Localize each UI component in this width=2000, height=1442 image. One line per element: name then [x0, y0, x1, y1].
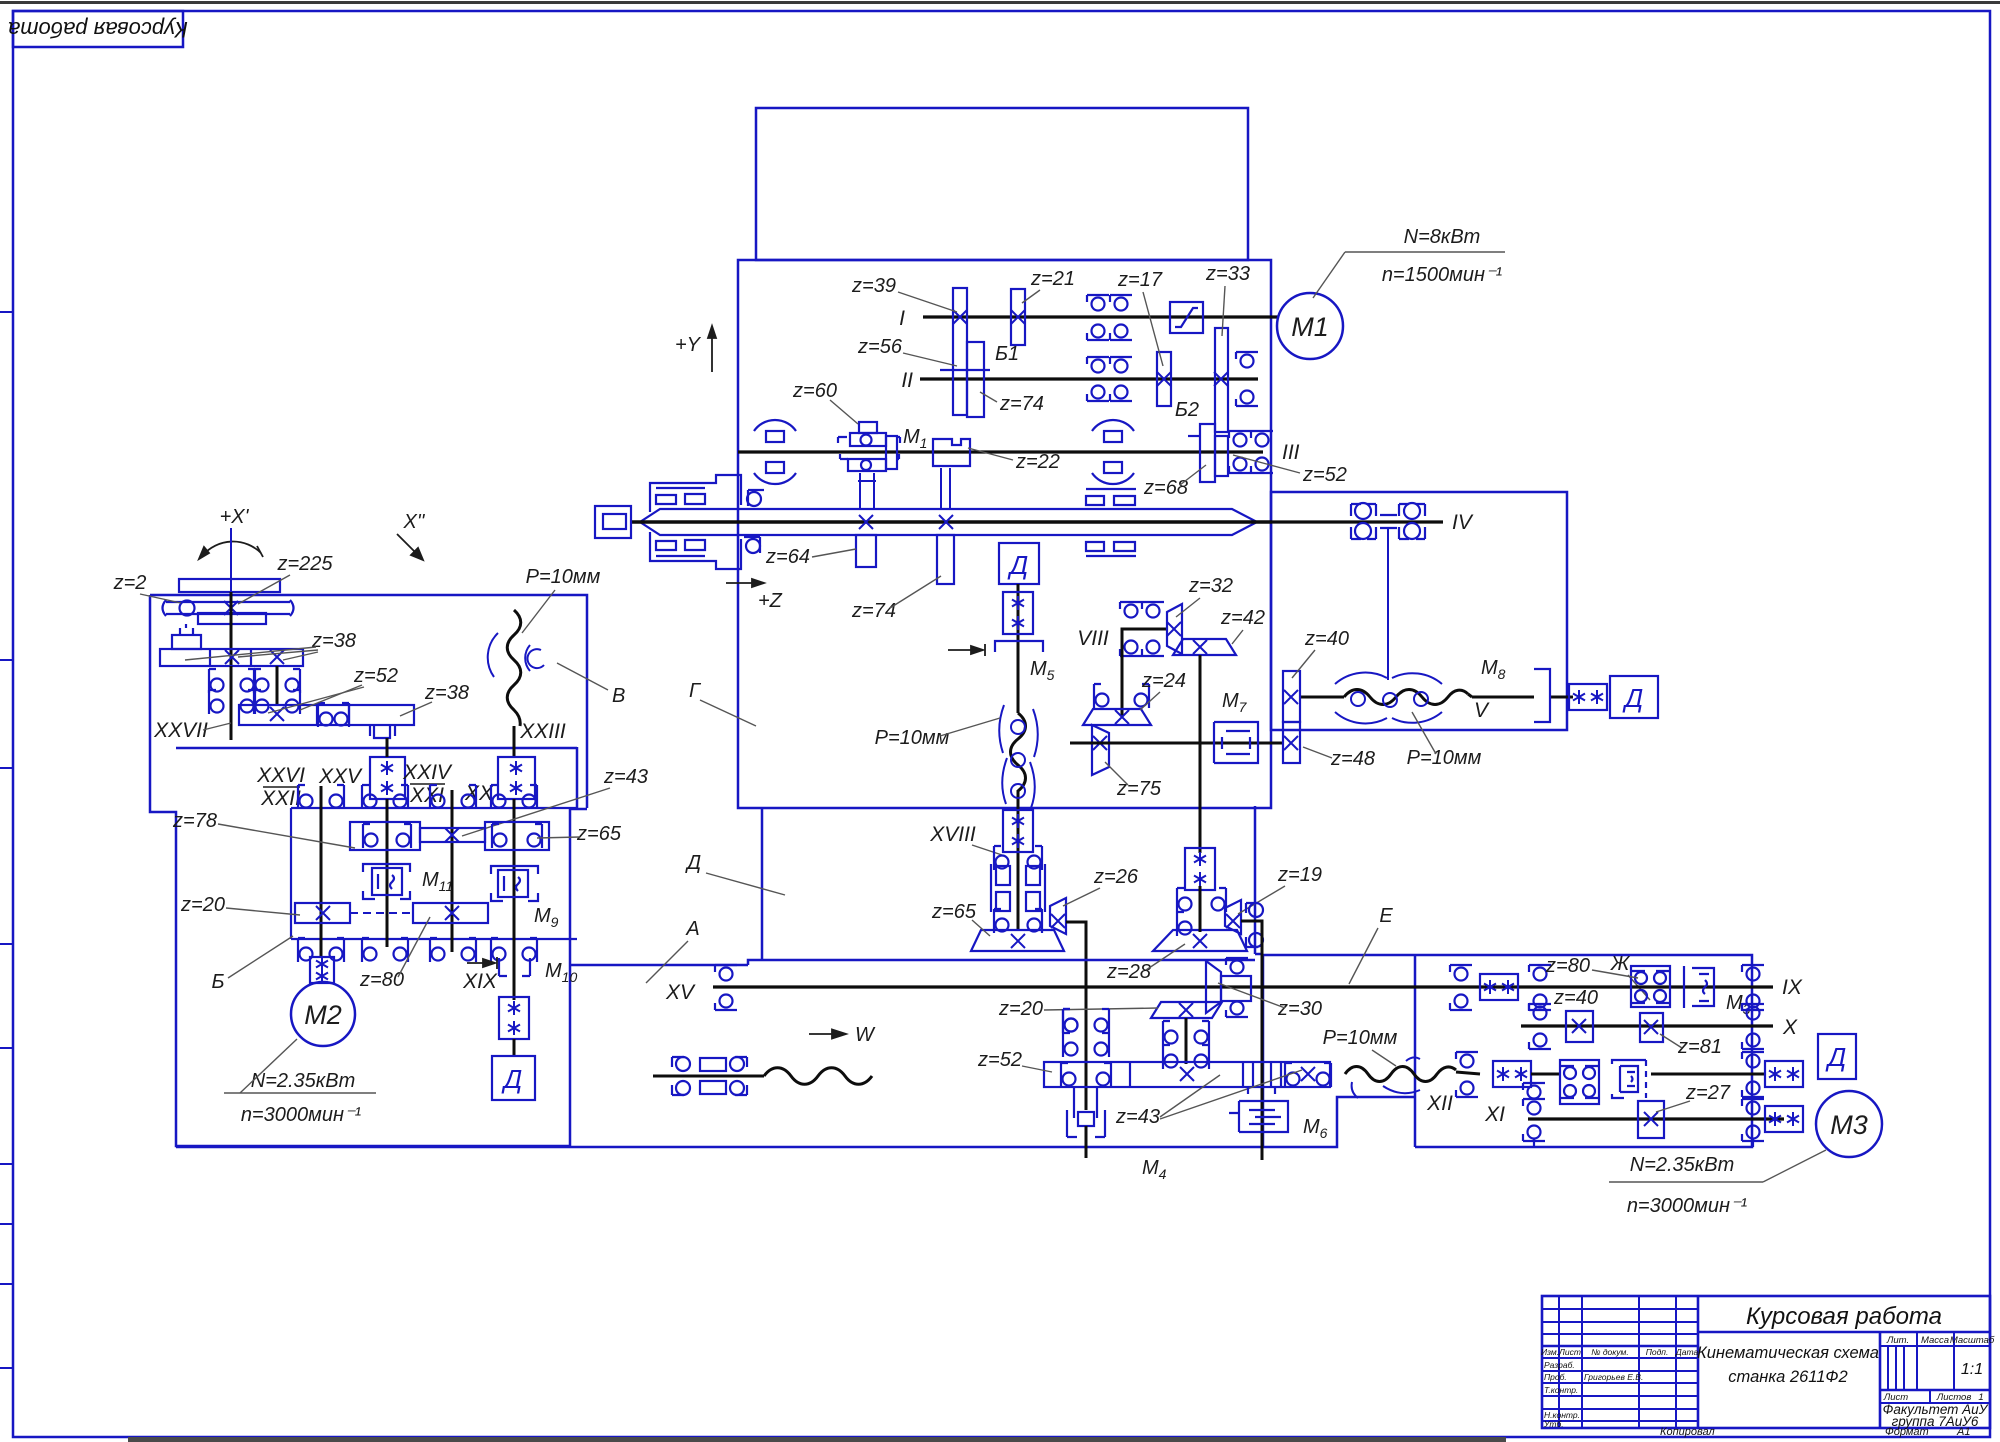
svg-text:z=48: z=48 [1330, 748, 1375, 770]
svg-text:Ж: Ж [1610, 953, 1631, 975]
svg-text:станка 2611Ф2: станка 2611Ф2 [1728, 1368, 1847, 1386]
svg-text:n=1500мин⁻¹: n=1500мин⁻¹ [1382, 264, 1503, 286]
svg-text:Лит.: Лит. [1886, 1335, 1909, 1346]
vertical black shaft from z42 down [1199, 655, 1202, 853]
shaft XV [713, 985, 1481, 988]
svg-text:n=3000мин⁻¹: n=3000мин⁻¹ [1627, 1195, 1748, 1217]
svg-text:z=39: z=39 [851, 275, 896, 297]
svg-text:W: W [855, 1024, 876, 1046]
bearings shaft I [1087, 295, 1109, 311]
svg-text:Д: Д [1622, 683, 1643, 713]
svg-text:XXII: XXII [260, 787, 301, 810]
svg-text:Е: Е [1379, 905, 1393, 927]
clutch M5 bracket [995, 641, 1043, 652]
bearings [1120, 602, 1142, 618]
bearings shaft II [1087, 357, 1109, 373]
svg-text:XIX: XIX [462, 970, 498, 993]
svg-text:X'': X'' [403, 511, 426, 533]
rotary table worm wheel z225 [163, 579, 294, 624]
gear row 2 block z52 / z38 [239, 705, 414, 738]
spindle support arcs left [754, 420, 796, 442]
svg-text:Б2: Б2 [1175, 399, 1199, 421]
svg-text:P=10мм: P=10мм [1323, 1027, 1398, 1049]
housing IV-V (right) [1271, 492, 1567, 730]
XIX arrow + label [467, 957, 497, 969]
spindle axis black [631, 520, 1272, 523]
bevel z65 [971, 930, 1064, 951]
svg-text:z=32: z=32 [1188, 575, 1233, 597]
screw section P=10mm vertical [1011, 713, 1026, 808]
svg-text:Изм.: Изм. [1541, 1347, 1559, 1357]
axis +Z arrow [726, 579, 764, 587]
svg-text:P=10мм: P=10мм [1407, 747, 1482, 769]
clutch with dashed on XII [1612, 1060, 1646, 1098]
shaft M5 vertical [1017, 584, 1020, 713]
ram housing top box [756, 108, 1248, 260]
svg-text:М2: М2 [304, 1000, 342, 1030]
svg-text:Масса: Масса [1921, 1335, 1949, 1346]
bearings on z28 vertical line [1063, 1009, 1078, 1033]
svg-text:Д: Д [1825, 1042, 1846, 1072]
svg-text:P=10мм: P=10мм [875, 727, 950, 749]
block B1 gears z39 z56 z74 [940, 288, 990, 417]
arrow left of M5 [948, 644, 985, 656]
svg-text:VIII: VIII [1077, 627, 1109, 650]
clutch M11 [363, 864, 410, 899]
motor M2 [291, 982, 355, 1046]
shaft XXIII to coupling [513, 726, 516, 757]
shaft I [923, 315, 1278, 318]
M4 clutch [1067, 1087, 1105, 1137]
svg-text:Курсовая работа: Курсовая работа [8, 17, 188, 42]
gear z33 tall [1215, 328, 1228, 432]
svg-text:XXIV: XXIV [402, 761, 453, 784]
screw XXIII wavy upper [507, 610, 521, 726]
svg-text:z=52: z=52 [353, 665, 398, 687]
spindle right bearing rects [1086, 489, 1136, 556]
clutch M7 [1214, 722, 1258, 763]
vertical shaft XXVII [230, 528, 232, 592]
gear z39 x-mark on shaft I [953, 310, 967, 324]
shaft XVIII below [1017, 808, 1020, 930]
svg-text:Т.контр.: Т.контр. [1544, 1385, 1578, 1395]
coupling to M2 [310, 957, 334, 983]
svg-text:z=80: z=80 [1545, 955, 1590, 977]
horizontal shaft to M7 [1070, 742, 1283, 745]
shaft XXIII lower to D [499, 997, 529, 1039]
svg-text:Д: Д [1007, 550, 1028, 580]
svg-text:Б1: Б1 [995, 343, 1019, 365]
feed gear block z52-z43 [1044, 1062, 1330, 1087]
svg-text:V: V [1474, 699, 1490, 722]
shaft XII lead screw [1345, 1067, 1456, 1082]
svg-text:z=52: z=52 [1302, 464, 1347, 486]
svg-text:Копировал: Копировал [1660, 1426, 1715, 1438]
shafts down [230, 666, 233, 740]
bottom dark strip [128, 1437, 1506, 1442]
inner frame of M2 box [291, 808, 577, 939]
shaft II [920, 377, 1258, 380]
svg-text:XVIII: XVIII [929, 823, 976, 846]
shaft from z20 down [1185, 1018, 1188, 1064]
gear z17 [1157, 352, 1171, 406]
svg-text:N=2.35кВт: N=2.35кВт [251, 1070, 356, 1092]
bearing cluster [672, 1057, 747, 1095]
gear z20 [295, 903, 350, 923]
shaft X [1521, 1024, 1773, 1027]
svg-text:Григорьев Е.В.: Григорьев Е.В. [1584, 1372, 1643, 1382]
shaft XI [1528, 1117, 1784, 1120]
svg-text:z=38: z=38 [311, 630, 356, 652]
couplings row [370, 757, 405, 799]
svg-text:P=10мм: P=10мм [526, 566, 601, 588]
svg-text:z=24: z=24 [1141, 670, 1186, 692]
svg-text:А: А [685, 918, 699, 940]
bearings [994, 846, 1009, 870]
svg-text:z=74: z=74 [999, 393, 1044, 415]
idler bar z43 [420, 828, 485, 842]
bevel z24 [1083, 709, 1151, 725]
svg-text:+Y: +Y [675, 334, 702, 356]
bearing cluster IV end [1351, 503, 1425, 680]
svg-text:Проб.: Проб. [1544, 1372, 1567, 1382]
svg-text:IX: IX [1782, 976, 1803, 999]
svg-text:z=60: z=60 [792, 380, 837, 402]
svg-text:z=20: z=20 [998, 998, 1043, 1020]
gear z21 [1011, 289, 1025, 345]
svg-text:Курсовая работа: Курсовая работа [1746, 1303, 1942, 1330]
motor M1 [1277, 293, 1343, 359]
shaft IV [1272, 520, 1443, 523]
bevel z28 on vertical shaft [1153, 930, 1247, 951]
svg-text:z=43: z=43 [1115, 1106, 1160, 1128]
svg-text:Масштаб: Масштаб [1950, 1335, 1995, 1346]
svg-text:II: II [901, 369, 913, 392]
gears z40 z48 left [1283, 671, 1300, 722]
svg-text:z=33: z=33 [1205, 263, 1250, 285]
svg-text:Лист: Лист [1558, 1347, 1581, 1357]
bevel z42 [1173, 639, 1236, 655]
gear z64 below spindle [856, 535, 876, 567]
housing B outline [150, 595, 587, 1146]
gear z80 [413, 903, 488, 923]
gear z74 below spindle [937, 535, 954, 584]
housing A bottom and E/Zh outline [176, 955, 1752, 1147]
spindle body [640, 509, 1257, 535]
shaft III [738, 450, 1263, 453]
bevel z32 [1167, 604, 1182, 654]
clutch M10 bracket [499, 958, 530, 976]
svg-text:Д: Д [501, 1064, 522, 1094]
svg-text:Утб.: Утб. [1543, 1419, 1564, 1429]
svg-text:XXVI: XXVI [256, 764, 305, 787]
vertical shaft z26-M4 [1063, 1009, 1078, 1033]
svg-text:N=8кВт: N=8кВт [1404, 226, 1481, 248]
svg-text:z=20: z=20 [180, 894, 225, 916]
tool holder box left [595, 506, 631, 538]
svg-text:z=56: z=56 [857, 336, 903, 358]
bevel z75 [1092, 725, 1109, 775]
gear block z65 [485, 822, 549, 850]
svg-text:X: X [1782, 1016, 1798, 1039]
svg-text:XXIII: XXIII [519, 720, 566, 743]
sensor box D [999, 543, 1039, 584]
gear block z78 [350, 822, 420, 850]
housing D (below G) [570, 806, 1263, 965]
bearings right of z52 [1229, 431, 1251, 447]
coupling [1003, 592, 1033, 634]
svg-text:z=22: z=22 [1015, 451, 1060, 473]
clutch M9 [491, 866, 538, 901]
svg-text:z=52: z=52 [977, 1049, 1022, 1071]
svg-text:z=42: z=42 [1220, 607, 1265, 629]
svg-text:IV: IV [1452, 511, 1474, 534]
svg-text:Дата: Дата [1675, 1347, 1699, 1357]
top black edge line [0, 1, 2000, 4]
top-left stamp box [13, 11, 183, 47]
lead screw V [1301, 696, 1344, 699]
svg-text:N=2.35кВт: N=2.35кВт [1630, 1154, 1735, 1176]
bearing rows on frame [298, 785, 313, 809]
svg-text:Разраб.: Разраб. [1544, 1360, 1575, 1370]
svg-text:Б: Б [211, 971, 224, 993]
format tick marks left edge [0, 312, 13, 1368]
svg-text:Подп.: Подп. [1646, 1347, 1669, 1357]
rack symbol [991, 864, 1045, 912]
svg-text:z=28: z=28 [1106, 961, 1151, 983]
bearing block z80 [1631, 966, 1670, 1007]
clutch M3 on IX [1684, 966, 1714, 1008]
svg-text:z=81: z=81 [1677, 1036, 1722, 1058]
spindle left bearing housing stepped [650, 475, 764, 569]
svg-text:z=17: z=17 [1117, 269, 1163, 291]
svg-text:z=40: z=40 [1553, 987, 1598, 1009]
drive box small [172, 624, 201, 649]
M6 clutch [1229, 1087, 1288, 1132]
svg-text:z=75: z=75 [1116, 778, 1162, 800]
svg-text:XV: XV [665, 981, 696, 1004]
shaft IX (continuation of XV) [1481, 985, 1773, 988]
bevel z26 [1050, 898, 1066, 934]
svg-text:XI: XI [1484, 1103, 1505, 1126]
housing Г [738, 260, 1271, 808]
svg-text:z=225: z=225 [276, 553, 333, 575]
svg-text:z=27: z=27 [1685, 1082, 1731, 1104]
worm z2 circle [180, 601, 195, 616]
vertical shafts in M2 box [320, 786, 323, 957]
svg-text:z=38: z=38 [424, 682, 469, 704]
svg-text:А1: А1 [1956, 1426, 1970, 1438]
svg-text:z=74: z=74 [851, 600, 896, 622]
svg-text:z=19: z=19 [1277, 864, 1322, 886]
svg-text:Формат: Формат [1885, 1426, 1929, 1438]
svg-text:n=3000мин⁻¹: n=3000мин⁻¹ [241, 1104, 362, 1126]
svg-text:1:1: 1:1 [1961, 1361, 1983, 1378]
stems of z64 z74 lower gears [858, 468, 950, 510]
block B2: z68 z52 on shaft III [1188, 424, 1228, 482]
overload clutch on shaft I [1170, 302, 1203, 333]
bevel z20 on XV [1151, 1002, 1222, 1018]
svg-text:z=78: z=78 [172, 810, 217, 832]
svg-text:Д: Д [685, 852, 701, 874]
svg-text:z=65: z=65 [931, 901, 977, 923]
svg-text:В: В [612, 685, 625, 707]
spindle support arcs right [1092, 420, 1134, 442]
bevel z19 [1225, 900, 1241, 934]
svg-text:z=80: z=80 [359, 969, 404, 991]
shaft VIII L [1122, 629, 1167, 717]
bevel z30 on XV [1206, 961, 1221, 1013]
clutch M1 with gear z60 on shaft III [838, 422, 900, 471]
gear row 1 (z38 z38) [160, 649, 303, 666]
axis +Y arrow [708, 326, 716, 372]
gear z22 on shaft III [933, 439, 970, 466]
svg-text:III: III [1282, 441, 1300, 464]
svg-text:XII: XII [1426, 1092, 1453, 1115]
svg-text:z=43: z=43 [603, 766, 648, 788]
svg-text:z=64: z=64 [765, 546, 810, 568]
svg-text:+Z: +Z [758, 590, 783, 612]
M8 bracket [1534, 669, 1550, 722]
coupling above z28 [1185, 848, 1215, 890]
svg-text:№ докум.: № докум. [1591, 1347, 1628, 1357]
svg-text:z=40: z=40 [1304, 628, 1349, 650]
svg-text:XXVII: XXVII [153, 719, 208, 742]
feed screw shaft left [653, 1075, 764, 1078]
svg-text:z=30: z=30 [1277, 998, 1322, 1020]
W arrow [809, 1030, 846, 1039]
svg-text:z=2: z=2 [113, 572, 147, 594]
svg-text:+X': +X' [220, 506, 250, 528]
svg-text:М3: М3 [1830, 1110, 1868, 1140]
svg-text:z=26: z=26 [1093, 866, 1139, 888]
motor M3 [1816, 1091, 1882, 1157]
bearings under row1 [209, 669, 224, 693]
svg-text:z=65: z=65 [576, 823, 622, 845]
coupling and D box right [1569, 684, 1607, 710]
svg-text:z=21: z=21 [1030, 268, 1075, 290]
black link z19 down to M6 [1241, 921, 1262, 1160]
black link from z26 down [1066, 922, 1086, 1110]
bearing block on XII [1560, 1060, 1599, 1104]
svg-text:М1: М1 [1291, 312, 1329, 342]
svg-text:z=68: z=68 [1143, 477, 1188, 499]
svg-text:Кинематическая схема: Кинематическая схема [1697, 1344, 1879, 1362]
svg-text:I: I [899, 307, 905, 330]
